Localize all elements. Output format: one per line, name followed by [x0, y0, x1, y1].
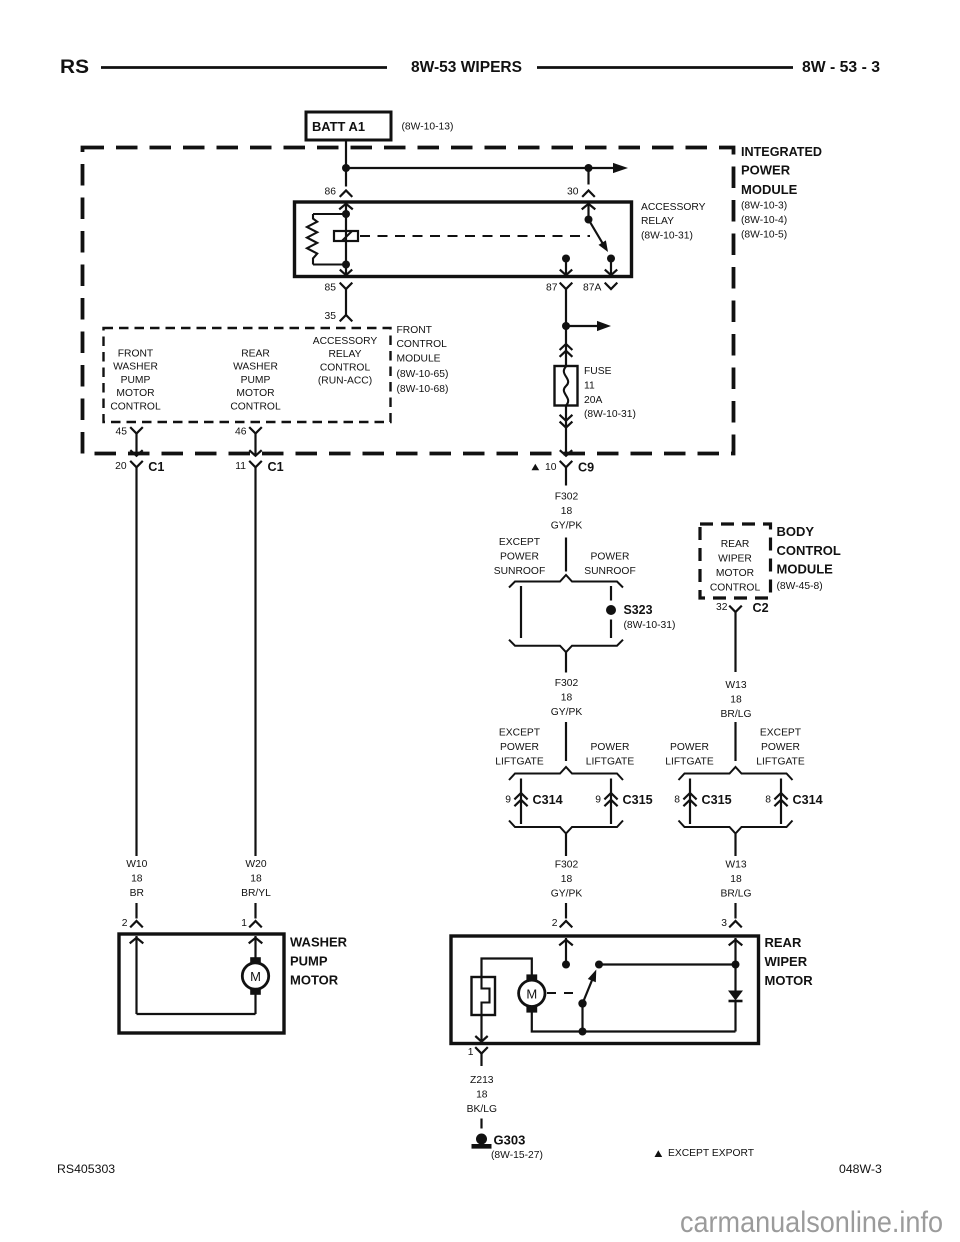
svg-text:WASHER: WASHER	[113, 362, 158, 373]
wire F302 to liftgate split	[565, 722, 567, 761]
connector pin 32 C2	[716, 601, 769, 615]
relay contact 87A	[605, 255, 617, 276]
svg-text:3: 3	[721, 918, 727, 929]
fuse 11 element	[555, 366, 578, 406]
svg-text:(RUN-ACC): (RUN-ACC)	[318, 376, 372, 387]
svg-text:ACCESSORY: ACCESSORY	[641, 202, 706, 213]
wire FCM 46 to IPM boundary	[249, 434, 261, 456]
svg-text:C315: C315	[702, 793, 732, 807]
header left label RS	[60, 57, 89, 78]
svg-text:BK/LG: BK/LG	[467, 1104, 497, 1115]
wire pin 85 to FCM pin 35	[345, 289, 347, 315]
junction coil bottom	[342, 261, 350, 269]
header title 8W-53 WIPERS	[411, 59, 522, 76]
svg-text:BATT A1: BATT A1	[312, 119, 365, 134]
wire label F302 18 GY/PK (lower)	[551, 860, 583, 900]
svg-text:FUSE: FUSE	[584, 366, 612, 377]
current arrow out pin 85	[340, 270, 352, 276]
wire washer bottom internal	[137, 1013, 256, 1015]
svg-text:F302: F302	[555, 860, 579, 871]
svg-text:87A: 87A	[583, 283, 601, 294]
svg-text:CONTROL: CONTROL	[777, 543, 841, 558]
svg-text:(8W-15-27): (8W-15-27)	[491, 1150, 543, 1161]
svg-text:GY/PK: GY/PK	[551, 707, 583, 718]
wire W13 below liftgate split	[734, 834, 736, 856]
svg-text:W13: W13	[725, 680, 746, 691]
svg-text:POWER: POWER	[670, 742, 709, 753]
except power liftgate label left	[495, 728, 544, 768]
svg-text:32: 32	[716, 602, 728, 613]
relay switch blade	[589, 220, 609, 253]
wire stub to rear wiper pin 2	[565, 903, 567, 919]
svg-text:W20: W20	[245, 859, 266, 870]
svg-text:POWER: POWER	[500, 742, 539, 753]
svg-text:MODULE: MODULE	[397, 354, 441, 365]
wire stub to rear wiper pin 3	[734, 903, 736, 919]
svg-text:C9: C9	[578, 461, 594, 475]
svg-text:GY/PK: GY/PK	[551, 521, 583, 532]
wire relay pin 30 to switch pivot	[587, 204, 589, 220]
pin 2 rear wiper motor	[552, 918, 573, 929]
svg-text:PUMP: PUMP	[290, 954, 328, 969]
inline connection chevrons above fuse	[560, 344, 573, 357]
svg-text:EXCEPT EXPORT: EXCEPT EXPORT	[668, 1148, 755, 1159]
svg-text:POWER: POWER	[591, 552, 630, 563]
svg-text:(8W-10-65): (8W-10-65)	[397, 369, 449, 380]
svg-text:11: 11	[235, 461, 246, 472]
wire washer pin 2 internal	[130, 936, 144, 1014]
svg-text:Z213: Z213	[470, 1075, 494, 1086]
svg-text:W13: W13	[725, 860, 746, 871]
wire rear pin 3 internal	[729, 938, 743, 965]
svg-text:18: 18	[561, 693, 573, 704]
svg-text:C314: C314	[793, 793, 823, 807]
pin 45	[116, 427, 143, 438]
wire branch to C315 right	[689, 779, 691, 825]
pin 1 rear wiper motor	[468, 1047, 488, 1066]
liftgate split brace left group	[509, 767, 623, 780]
svg-text:(8W-10-31): (8W-10-31)	[584, 409, 636, 420]
svg-text:C1: C1	[148, 460, 164, 474]
rear wiper motor box	[451, 936, 759, 1044]
wire label W10 18 BR	[126, 859, 147, 899]
svg-text:BR: BR	[130, 888, 144, 899]
svg-text:EXCEPT: EXCEPT	[499, 728, 541, 739]
svg-text:18: 18	[561, 874, 573, 885]
svg-text:C1: C1	[268, 460, 284, 474]
wire branch to C314	[520, 779, 522, 825]
svg-text:2: 2	[122, 918, 128, 929]
svg-text:10: 10	[545, 462, 557, 473]
connector pin 11 C1	[235, 460, 283, 474]
header rule left	[101, 66, 387, 69]
svg-text:(8W-45-8): (8W-45-8)	[777, 581, 823, 592]
wire switch contact to diode branch	[599, 963, 736, 965]
wire power sunroof branch upper	[610, 586, 612, 601]
svg-text:CONTROL: CONTROL	[320, 362, 371, 373]
wire label W13 18 BR/LG (upper)	[721, 680, 752, 720]
svg-text:F302: F302	[555, 678, 579, 689]
accessory relay label	[641, 202, 706, 242]
relay coil element	[334, 231, 358, 241]
svg-text:ACCESSORY: ACCESSORY	[313, 336, 378, 347]
svg-text:20: 20	[115, 461, 127, 472]
wire rear pin 2 internal	[559, 938, 573, 965]
svg-text:CONTROL: CONTROL	[397, 339, 448, 350]
junction blade to ground path	[579, 1028, 587, 1036]
header page number 8W - 53 - 3	[802, 59, 880, 76]
svg-text:C315: C315	[623, 793, 653, 807]
motor to switch mechanical link dashed	[547, 992, 578, 994]
park switch blade	[578, 970, 596, 1008]
liftgate split brace right group	[679, 767, 793, 780]
pin 1 washer pump	[241, 918, 262, 929]
svg-text:(8W-10-5): (8W-10-5)	[741, 230, 787, 241]
svg-text:35: 35	[325, 311, 337, 322]
svg-text:S323: S323	[624, 603, 653, 617]
svg-text:18: 18	[250, 873, 262, 884]
front washer pump motor control label	[110, 349, 161, 413]
in-line connector pin 8 C314	[765, 793, 822, 807]
relay switch pivot	[585, 216, 593, 224]
wire motor bottom to diode branch	[532, 1013, 736, 1032]
wire motor top to park switch	[482, 959, 532, 978]
svg-text:8W-53 WIPERS: 8W-53 WIPERS	[411, 59, 522, 76]
wire stub to washer pump pin 1	[254, 903, 256, 919]
svg-text:LIFTGATE: LIFTGATE	[495, 757, 544, 768]
svg-text:C314: C314	[533, 793, 563, 807]
arrow to other circuits right	[613, 163, 628, 173]
svg-text:MODULE: MODULE	[777, 562, 834, 577]
svg-text:CONTROL: CONTROL	[710, 583, 761, 594]
svg-text:CONTROL: CONTROL	[230, 401, 281, 412]
relay contact 87	[560, 255, 572, 276]
washer pump motor M1	[242, 957, 268, 1014]
junction node above relay pin 30	[585, 164, 593, 172]
junction coil top	[342, 210, 350, 218]
svg-text:(8W-10-31): (8W-10-31)	[624, 620, 676, 631]
accessory relay box	[295, 202, 632, 277]
integrated power module boundary (dashed)	[83, 148, 734, 454]
svg-text:REAR: REAR	[765, 935, 802, 950]
liftgate rejoin brace left group	[509, 821, 623, 834]
svg-text:RELAY: RELAY	[328, 349, 361, 360]
svg-text:18: 18	[131, 873, 143, 884]
svg-text:SUNROOF: SUNROOF	[584, 566, 636, 577]
wire W10 from C1	[135, 467, 137, 856]
svg-text:(8W-10-13): (8W-10-13)	[402, 122, 454, 133]
wire relay coil vertical	[345, 204, 347, 275]
svg-text:20A: 20A	[584, 395, 602, 406]
svg-text:18: 18	[476, 1090, 488, 1101]
svg-text:RS405303: RS405303	[57, 1162, 115, 1176]
svg-text:LIFTGATE: LIFTGATE	[665, 757, 714, 768]
rear wiper motor M2	[519, 974, 545, 1012]
svg-text:WIPER: WIPER	[718, 554, 752, 565]
svg-text:SUNROOF: SUNROOF	[494, 566, 546, 577]
park switch cam	[472, 977, 496, 1015]
wire branch to C315	[610, 779, 612, 825]
junction diode branch	[732, 961, 740, 969]
current arrow into pin 86	[339, 204, 353, 210]
wire except power sunroof branch	[520, 586, 522, 638]
wire horizontal battery feed	[346, 167, 614, 169]
current arrow at IPM boundary	[560, 450, 572, 456]
pin 86	[325, 187, 353, 198]
in-line connector pin 8 C315	[674, 793, 731, 807]
svg-text:POWER: POWER	[741, 163, 791, 178]
wire label Z213 18 BK/LG	[467, 1075, 497, 1115]
svg-text:8: 8	[765, 795, 771, 806]
svg-text:MOTOR: MOTOR	[765, 973, 814, 988]
svg-text:45: 45	[116, 427, 128, 438]
svg-text:BR/LG: BR/LG	[721, 889, 752, 900]
svg-text:11: 11	[584, 380, 595, 391]
in-line connector pin 9 C314	[505, 793, 562, 807]
svg-text:30: 30	[567, 187, 579, 198]
wire W20 from C1	[254, 467, 256, 856]
svg-text:WASHER: WASHER	[290, 935, 348, 950]
svg-text:EXCEPT: EXCEPT	[760, 728, 802, 739]
svg-text:8W - 53 - 3: 8W - 53 - 3	[802, 59, 880, 76]
svg-text:G303: G303	[494, 1133, 526, 1148]
resistor relay shunt	[307, 214, 346, 265]
wire label F302 18 GY/PK (upper)	[551, 492, 583, 532]
svg-text:F302: F302	[555, 492, 579, 503]
svg-text:carmanualsonline.info: carmanualsonline.info	[680, 1206, 943, 1239]
svg-text:MOTOR: MOTOR	[716, 568, 754, 579]
pin 30	[567, 187, 595, 198]
except export marker at C9	[532, 464, 540, 471]
svg-text:POWER: POWER	[591, 742, 630, 753]
svg-text:PUMP: PUMP	[241, 375, 271, 386]
wire W13 from BCM	[734, 612, 736, 672]
pin 3 rear wiper motor	[721, 918, 742, 929]
svg-text:CONTROL: CONTROL	[110, 401, 161, 412]
except power liftgate label right	[756, 728, 805, 768]
wire fuse down to IPM boundary	[565, 406, 567, 455]
BATT A1 reference (8W-10-13)	[402, 122, 454, 133]
svg-text:GY/PK: GY/PK	[551, 889, 583, 900]
svg-text:PUMP: PUMP	[121, 375, 151, 386]
footer right 048W-3	[839, 1162, 882, 1176]
connector pin 10 C9	[545, 461, 594, 475]
svg-text:18: 18	[730, 695, 742, 706]
wire blade pivot down	[581, 1004, 583, 1032]
wire F302 below liftgate split	[565, 834, 567, 856]
wire F302 to sunroof split	[565, 538, 567, 572]
body control module label	[777, 524, 841, 592]
svg-text:RELAY: RELAY	[641, 216, 674, 227]
battery feed BATT A1 box	[306, 112, 391, 140]
pin 85	[325, 283, 353, 294]
wire stub to washer pump pin 2	[135, 903, 137, 919]
junction node battery feed	[342, 164, 350, 172]
rear washer pump motor control label	[230, 349, 281, 413]
legend except export	[655, 1148, 755, 1159]
body control module boundary (dashed)	[700, 524, 771, 598]
svg-text:9: 9	[595, 795, 601, 806]
wire park switch to pin 1	[475, 1015, 487, 1042]
wire power sunroof branch lower	[610, 620, 612, 639]
svg-text:BR/LG: BR/LG	[721, 709, 752, 720]
switch contact from pin 2	[562, 961, 570, 969]
wire F302 below sunroof split	[565, 652, 567, 673]
svg-text:POWER: POWER	[500, 552, 539, 563]
liftgate rejoin brace right group	[679, 821, 793, 834]
rear wiper motor label	[765, 935, 814, 988]
header rule right	[537, 66, 793, 69]
sunroof rejoin brace	[509, 640, 623, 653]
power sunroof label	[584, 552, 636, 578]
wire label W13 18 BR/LG (lower)	[721, 860, 752, 900]
svg-text:18: 18	[561, 506, 573, 517]
front control module boundary (dashed)	[104, 328, 391, 422]
svg-text:REAR: REAR	[721, 539, 750, 550]
svg-text:BODY: BODY	[777, 524, 815, 539]
accessory relay control label	[313, 336, 378, 387]
junction node to other circuits	[562, 322, 570, 330]
svg-text:MODULE: MODULE	[741, 182, 798, 197]
svg-text:LIFTGATE: LIFTGATE	[756, 757, 805, 768]
wire pin 87 down to fuse	[565, 289, 567, 366]
svg-text:POWER: POWER	[761, 742, 800, 753]
wire label W20 18 BR/YL	[241, 859, 271, 899]
svg-text:RS: RS	[60, 57, 89, 78]
pin 2 washer pump	[122, 918, 143, 929]
wire BATT A1 down to feed node	[345, 140, 347, 187]
svg-text:W10: W10	[126, 859, 147, 870]
svg-text:85: 85	[325, 283, 337, 294]
svg-text:MOTOR: MOTOR	[290, 973, 339, 988]
footer left RS405303	[57, 1162, 115, 1176]
watermark	[680, 1206, 943, 1239]
pin 35	[325, 311, 353, 322]
rear wiper motor control label	[710, 539, 761, 594]
pin 87A label	[583, 283, 617, 294]
fuse 11 label	[584, 366, 636, 420]
wire label F302 18 GY/PK (middle)	[551, 678, 583, 718]
svg-text:18: 18	[730, 874, 742, 885]
svg-text:(8W-10-3): (8W-10-3)	[741, 201, 787, 212]
svg-text:87: 87	[546, 283, 558, 294]
svg-text:048W-3: 048W-3	[839, 1162, 882, 1176]
svg-text:FRONT: FRONT	[118, 349, 154, 360]
svg-text:FRONT: FRONT	[397, 325, 433, 336]
pin 87	[546, 283, 572, 294]
sunroof split brace	[509, 575, 623, 588]
current arrow into pin 30	[582, 204, 596, 210]
relay mechanical link dashed	[360, 235, 590, 237]
inline connection chevrons below fuse	[560, 415, 573, 428]
wire washer pin 1 internal	[249, 936, 263, 958]
integrated power module label	[741, 144, 822, 241]
svg-text:8: 8	[674, 795, 680, 806]
connector pin 20 C1	[115, 460, 164, 474]
svg-text:2: 2	[552, 918, 558, 929]
svg-text:C2: C2	[753, 601, 769, 615]
wire FCM 45 to IPM boundary	[130, 434, 142, 456]
svg-text:BR/YL: BR/YL	[241, 888, 271, 899]
front control module label	[397, 325, 449, 395]
svg-text:1: 1	[468, 1047, 474, 1058]
svg-text:INTEGRATED: INTEGRATED	[741, 144, 822, 159]
ground G303	[472, 1133, 543, 1162]
svg-text:REAR: REAR	[241, 349, 270, 360]
svg-text:(8W-10-68): (8W-10-68)	[397, 384, 449, 395]
power liftgate label left	[586, 742, 635, 768]
svg-text:WIPER: WIPER	[765, 954, 808, 969]
power liftgate label right	[665, 742, 714, 768]
wire branch to C314 right	[780, 779, 782, 825]
svg-text:WASHER: WASHER	[233, 362, 278, 373]
switch top contact	[595, 961, 603, 969]
wire stub to ground	[480, 1119, 482, 1129]
svg-text:(8W-10-31): (8W-10-31)	[641, 231, 693, 242]
wire arrow to other circuits	[566, 321, 611, 331]
svg-text:MOTOR: MOTOR	[236, 388, 274, 399]
diode	[728, 965, 743, 1032]
in-line connector pin 9 C315	[595, 793, 652, 807]
washer pump motor box	[119, 934, 284, 1033]
svg-text:EXCEPT: EXCEPT	[499, 537, 541, 548]
svg-text:86: 86	[325, 187, 337, 198]
svg-text:1: 1	[241, 918, 247, 929]
wire down to relay pin 30	[587, 168, 589, 185]
svg-text:M: M	[250, 969, 261, 984]
wire W13 to liftgate split	[734, 722, 736, 761]
svg-text:9: 9	[505, 795, 511, 806]
svg-text:LIFTGATE: LIFTGATE	[586, 757, 635, 768]
wire F302 from C9	[565, 467, 567, 485]
splice S323	[606, 603, 675, 631]
washer pump motor label	[290, 935, 348, 988]
svg-text:(8W-10-4): (8W-10-4)	[741, 215, 787, 226]
svg-text:46: 46	[235, 427, 247, 438]
except power sunroof label	[494, 537, 546, 577]
pin 46	[235, 427, 262, 438]
svg-text:MOTOR: MOTOR	[116, 388, 154, 399]
svg-text:M: M	[526, 986, 537, 1001]
